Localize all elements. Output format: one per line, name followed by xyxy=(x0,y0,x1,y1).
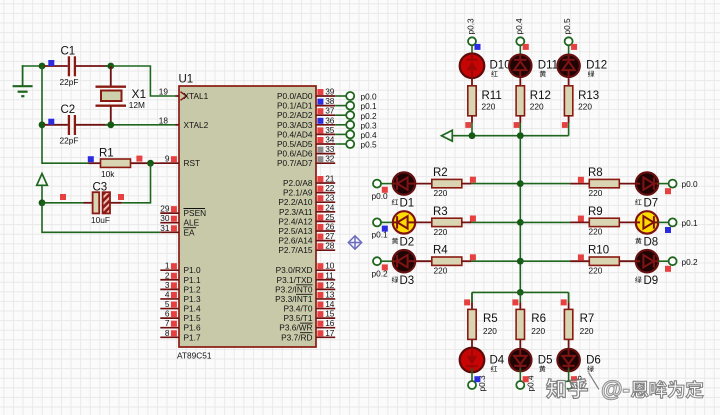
svg-text:D12: D12 xyxy=(586,60,607,72)
svg-text:D4: D4 xyxy=(490,355,505,367)
U1 pin 2 (P1.1) xyxy=(160,270,201,285)
svg-text:2: 2 xyxy=(165,270,170,280)
svg-text:P0.4/AD4: P0.4/AD4 xyxy=(277,129,313,139)
svg-text:13: 13 xyxy=(325,289,335,299)
wire LED D3 to R4 xyxy=(415,260,432,262)
svg-text:28: 28 xyxy=(325,241,335,251)
node bus row p0.2 xyxy=(517,258,524,265)
terminal p0.3 bottom xyxy=(468,375,487,392)
svg-text:PSEN: PSEN xyxy=(184,208,207,218)
svg-text:7: 7 xyxy=(165,318,170,328)
power terminal +5V xyxy=(37,174,48,203)
terminal p0.2 left xyxy=(372,257,389,278)
R7 logic square xyxy=(561,299,567,305)
U1 pin 17 (P3.7/RD) xyxy=(281,328,335,343)
svg-text:D1: D1 xyxy=(400,198,415,210)
svg-text:39: 39 xyxy=(325,87,335,97)
p0.2 left logic square xyxy=(382,264,388,270)
U1 pin 25 (P2.4/A12) xyxy=(278,212,335,227)
svg-text:10uF: 10uF xyxy=(91,215,110,225)
wire R8 to LED D7 xyxy=(619,183,636,185)
svg-text:R1: R1 xyxy=(99,148,114,160)
svg-text:P1.1: P1.1 xyxy=(184,275,201,285)
resistor R5 220 xyxy=(468,309,498,339)
svg-text:R12: R12 xyxy=(530,90,551,102)
U1 pin 11 (P3.1/TXD) xyxy=(277,270,336,285)
resistor R7 220 xyxy=(564,309,594,339)
svg-text:22pF: 22pF xyxy=(60,135,79,145)
U1 pin 19 (XTAL1) xyxy=(159,87,209,102)
svg-text:15: 15 xyxy=(325,309,335,319)
svg-text:P1.5: P1.5 xyxy=(184,313,201,323)
svg-text:16: 16 xyxy=(325,318,335,328)
U1 pin 28 (P2.7/A15) xyxy=(278,241,335,256)
resistor R6 220 xyxy=(516,309,546,339)
svg-text:33: 33 xyxy=(325,144,335,154)
wire C1 to X1 top xyxy=(105,65,111,67)
svg-text:P1.0: P1.0 xyxy=(184,265,201,275)
wire p0.5 terminal to LED D12 xyxy=(568,45,570,58)
U1 pin 3 (P1.2) xyxy=(160,280,201,295)
svg-text:R13: R13 xyxy=(578,90,599,102)
op chip U1 AT89C51 body xyxy=(177,74,316,361)
svg-text:P1.4: P1.4 xyxy=(184,304,201,314)
C2 logic state square (blue) xyxy=(48,119,54,125)
U1 pin 10 (P3.0/RXD) xyxy=(276,261,336,276)
wire R4 to bus xyxy=(462,260,521,262)
U1 pin 5 (P1.4) xyxy=(160,299,201,314)
resistor R13 220 xyxy=(564,86,599,116)
U1 pin 39 (P0.0/AD0) xyxy=(277,87,335,102)
wire bus to R6 xyxy=(519,292,521,309)
wire EA to power junction xyxy=(42,203,160,233)
svg-text:P3.6/WR: P3.6/WR xyxy=(279,323,312,333)
terminal p0.1 right xyxy=(669,218,698,228)
R1 logic squares xyxy=(88,156,143,163)
terminal p0.1 left xyxy=(372,218,389,239)
wire LED D2 to R3 xyxy=(415,221,432,223)
terminal p0.5 top xyxy=(562,18,573,45)
svg-text:D2: D2 xyxy=(400,236,415,248)
R13 logic square xyxy=(562,122,568,128)
wire bus to R10 xyxy=(520,260,589,262)
wire power junction to C3 xyxy=(42,202,93,204)
svg-text:C1: C1 xyxy=(61,46,76,58)
svg-text:17: 17 xyxy=(325,328,335,338)
svg-text:P1.7: P1.7 xyxy=(184,332,201,342)
p0.1 left logic square xyxy=(382,226,388,232)
LED D3 (绿) xyxy=(392,250,415,287)
terminal p0.3 top xyxy=(466,18,477,45)
svg-text:p0.0: p0.0 xyxy=(682,179,699,189)
svg-text:220: 220 xyxy=(482,101,496,111)
U1 XTAL1 clock arrow xyxy=(181,92,187,100)
svg-text:D10: D10 xyxy=(490,60,511,72)
svg-text:R5: R5 xyxy=(483,313,498,325)
svg-text:p0.3: p0.3 xyxy=(466,18,476,35)
node C3 left junction xyxy=(39,199,46,206)
U1 pin 38 (P0.1/AD1) xyxy=(277,96,335,111)
wire p0.1 to LED D2 xyxy=(381,221,393,223)
svg-text:R10: R10 xyxy=(588,245,609,257)
R3 logic square xyxy=(470,216,476,222)
svg-text:p0.3: p0.3 xyxy=(361,120,378,130)
LED D2 (黄) xyxy=(392,211,415,248)
svg-text:P0.7/AD7: P0.7/AD7 xyxy=(277,158,313,168)
svg-text:31: 31 xyxy=(160,223,170,233)
svg-text:P2.1/A9: P2.1/A9 xyxy=(283,188,313,198)
wire P0.3 pin to terminal xyxy=(335,124,346,126)
svg-text:P0.5/AD5: P0.5/AD5 xyxy=(277,139,313,149)
svg-text:P2.0/A8: P2.0/A8 xyxy=(283,178,313,188)
svg-text:P0.2/AD2: P0.2/AD2 xyxy=(277,110,313,120)
R5 logic square xyxy=(464,299,470,305)
U1 pin 37 (P0.2/AD2) xyxy=(277,106,335,121)
svg-text:5: 5 xyxy=(165,299,170,309)
svg-text:24: 24 xyxy=(325,202,335,212)
terminal p0.0 at U1 xyxy=(346,92,377,102)
svg-text:21: 21 xyxy=(325,174,335,184)
resistor R4 220 xyxy=(432,245,462,276)
svg-text:220: 220 xyxy=(531,326,545,336)
wire R2 to bus xyxy=(462,183,521,185)
svg-text:P1.3: P1.3 xyxy=(184,294,201,304)
R8 logic square xyxy=(578,177,584,183)
R11 logic square xyxy=(465,122,471,128)
wire LED D9 to terminal p0.2 right xyxy=(658,260,669,262)
node bottom bus junction xyxy=(517,289,524,296)
C1 logic state square (blue) xyxy=(48,60,54,66)
terminal p0.3 at U1 xyxy=(346,120,377,130)
svg-text:P2.2/A10: P2.2/A10 xyxy=(278,197,313,207)
LED D8 (黄) xyxy=(635,211,658,248)
U1 pin 15 (P3.5/T1) xyxy=(283,309,335,324)
LED D1 (红) xyxy=(392,172,415,209)
svg-text:D3: D3 xyxy=(400,275,415,287)
U1 pin 12 (P3.2/INT0) xyxy=(275,280,335,295)
resistor R11 220 xyxy=(468,86,502,116)
p0.5 bottom logic square xyxy=(571,376,577,382)
svg-text:P2.3/A11: P2.3/A11 xyxy=(279,207,313,217)
wire LED D4 to terminal p0.3 xyxy=(471,368,473,381)
terminal p0.5 bottom xyxy=(565,375,584,392)
node C2 left junction xyxy=(39,121,46,128)
U1 pin 21 (P2.0/A8) xyxy=(283,174,335,189)
svg-text:12: 12 xyxy=(325,280,335,290)
U1 pin 30 (ALE) xyxy=(160,213,199,228)
U1 pin 26 (P2.5/A13) xyxy=(278,222,335,237)
node C1 left junction xyxy=(39,63,46,70)
wire P0.5 pin to terminal xyxy=(335,143,346,145)
svg-text:P0.1/AD1: P0.1/AD1 xyxy=(277,101,313,111)
LED D4 (红) xyxy=(460,348,505,373)
node X1 bottom junction xyxy=(107,121,114,128)
svg-text:R3: R3 xyxy=(433,206,448,218)
terminal p0.4 bottom xyxy=(516,375,535,392)
terminal p0.2 right xyxy=(669,257,698,267)
LED D9 (绿) xyxy=(635,250,658,287)
terminal p0.1 at U1 xyxy=(346,101,377,111)
U1 pin 24 (P2.3/A11) xyxy=(279,202,335,217)
wire P0.1 pin to terminal xyxy=(335,105,346,107)
U1 pin 16 (P3.6/WR) xyxy=(279,318,335,333)
wire R1 to RST pin xyxy=(148,162,179,164)
U1 pin 23 (P2.2/A10) xyxy=(278,193,335,208)
U1 pin 29 (PSEN) xyxy=(160,204,206,219)
svg-text:220: 220 xyxy=(530,101,544,111)
resistor R1 xyxy=(89,148,149,179)
terminal p0.4 at U1 xyxy=(346,130,377,140)
terminal p0.2 at U1 xyxy=(346,111,377,121)
node bus row p0.1 xyxy=(517,219,524,226)
svg-text:P3.3/INT1: P3.3/INT1 xyxy=(275,294,313,304)
svg-text:32: 32 xyxy=(325,154,335,164)
svg-text:R11: R11 xyxy=(482,90,502,102)
wire R10 to LED D9 xyxy=(619,260,636,262)
capacitor C2 xyxy=(45,104,108,145)
wire R3 to bus xyxy=(462,221,521,223)
wire ground to C1 xyxy=(22,65,42,67)
svg-text:38: 38 xyxy=(325,96,335,106)
U1 pin 36 (P0.3/AD3) xyxy=(277,115,335,130)
watermark zhihu xyxy=(546,373,704,403)
svg-text:23: 23 xyxy=(325,193,335,203)
svg-text:10k: 10k xyxy=(101,169,115,179)
R9 logic square xyxy=(578,216,584,222)
R2 logic square xyxy=(470,177,476,183)
wire R11 to top bus xyxy=(471,116,473,136)
svg-text:p0.4: p0.4 xyxy=(514,18,524,35)
wire RST junction down to C3 xyxy=(110,163,150,203)
svg-text:19: 19 xyxy=(159,87,169,97)
U1 pin 33 (P0.6/AD6) xyxy=(277,144,335,159)
svg-text:R2: R2 xyxy=(433,167,448,179)
svg-text:P0.6/AD6: P0.6/AD6 xyxy=(277,149,313,159)
wire LED D6 to terminal p0.5 xyxy=(568,368,570,381)
svg-text:P2.5/A13: P2.5/A13 xyxy=(278,226,313,236)
p0.4 bottom logic square xyxy=(523,376,529,382)
crystal X1 xyxy=(96,66,147,125)
U1 pin 27 (P2.6/A14) xyxy=(278,231,335,246)
terminal p0.5 at U1 xyxy=(346,140,377,150)
node RST junction xyxy=(147,160,154,167)
svg-text:AT89C51: AT89C51 xyxy=(177,351,212,361)
p0.1 right logic square xyxy=(665,227,671,233)
wire LED D10 to resistor R11 xyxy=(471,78,473,86)
svg-text:EA: EA xyxy=(184,227,196,237)
svg-text:p0.1: p0.1 xyxy=(361,101,378,111)
U1 pin 8 (P1.7) xyxy=(160,328,201,343)
U1 pin 14 (P3.4/T0) xyxy=(283,299,335,314)
svg-text:P3.2/INT0: P3.2/INT0 xyxy=(275,284,313,294)
resistor R9 220 xyxy=(588,206,619,237)
U1 pin 13 (P3.3/INT1) xyxy=(275,289,335,304)
svg-text:p0.5: p0.5 xyxy=(361,140,378,150)
p0.0 left logic square xyxy=(382,187,388,193)
svg-text:220: 220 xyxy=(483,326,497,336)
p0.2 right logic square xyxy=(665,266,671,272)
LED D7 (红) xyxy=(635,172,658,209)
U1 pin 22 (P2.1/A9) xyxy=(283,183,335,198)
svg-text:D8: D8 xyxy=(644,236,659,248)
wire C1-junction down to C2 and R1 row xyxy=(42,66,89,163)
LED D5 (黄) xyxy=(509,349,552,372)
wire bus to R7 xyxy=(568,292,570,309)
svg-text:18: 18 xyxy=(159,115,169,125)
wire LED D12 to resistor R13 xyxy=(568,78,570,86)
svg-text:8: 8 xyxy=(165,328,170,338)
svg-text:P2.6/A14: P2.6/A14 xyxy=(278,236,313,246)
U1 pin 31 (EA) xyxy=(160,223,196,238)
svg-text:36: 36 xyxy=(325,115,335,125)
wire C2 to XTAL2 pin xyxy=(105,124,177,126)
resistor R2 220 xyxy=(432,167,462,198)
svg-text:220: 220 xyxy=(578,101,592,111)
svg-text:3: 3 xyxy=(165,280,170,290)
svg-text:P3.4/T0: P3.4/T0 xyxy=(283,304,312,314)
svg-text:6: 6 xyxy=(165,309,170,319)
resistor R12 220 xyxy=(516,86,551,116)
svg-text:P2.4/A12: P2.4/A12 xyxy=(278,216,313,226)
wire R7 to LED D6 xyxy=(568,340,570,348)
svg-text:D5: D5 xyxy=(538,355,553,367)
resistor R8 220 xyxy=(588,167,619,198)
svg-text:X1: X1 xyxy=(132,87,147,101)
R10 logic square xyxy=(578,254,584,260)
svg-text:29: 29 xyxy=(160,204,170,214)
wire LED D7 to terminal p0.0 right xyxy=(658,183,669,185)
svg-text:30: 30 xyxy=(160,213,170,223)
wire bottom bus xyxy=(472,292,569,302)
R6 logic square xyxy=(512,299,518,305)
svg-text:XTAL1: XTAL1 xyxy=(184,91,209,101)
wire R12 to top bus xyxy=(519,116,521,136)
svg-text:p0.1: p0.1 xyxy=(682,218,699,228)
svg-text:D7: D7 xyxy=(644,198,659,210)
svg-text:P3.5/T1: P3.5/T1 xyxy=(283,313,312,323)
p0.0 right logic square xyxy=(665,188,671,194)
U1 pin 1 (P1.0) xyxy=(160,261,201,276)
wire p0.0 to LED D1 xyxy=(381,183,393,185)
terminal p0.0 left xyxy=(372,180,389,201)
svg-text:RST: RST xyxy=(184,158,201,168)
svg-text:P3.7/RD: P3.7/RD xyxy=(281,332,312,342)
wire P0.2 pin to terminal xyxy=(335,114,346,116)
R4 logic square xyxy=(470,254,476,260)
svg-text:R8: R8 xyxy=(588,167,603,179)
svg-text:P2.7/A15: P2.7/A15 xyxy=(278,245,313,255)
svg-text:R6: R6 xyxy=(531,313,546,325)
svg-text:22: 22 xyxy=(325,183,335,193)
U1 pin 9 (RST) xyxy=(160,154,200,169)
U1 pin 6 (P1.5) xyxy=(160,309,201,324)
svg-text:p0.2: p0.2 xyxy=(361,111,378,121)
svg-text:14: 14 xyxy=(325,299,335,309)
svg-text:27: 27 xyxy=(325,231,335,241)
wire p0.4 terminal to LED D11 xyxy=(519,45,521,58)
U1 pin 18 (XTAL2) xyxy=(159,115,209,130)
wire center bus xyxy=(519,136,521,293)
C3 logic squares xyxy=(60,194,124,200)
svg-text:P0.0/AD0: P0.0/AD0 xyxy=(277,91,313,101)
svg-text:p0.5: p0.5 xyxy=(562,18,572,35)
svg-text:C2: C2 xyxy=(61,104,76,116)
svg-text:P1.6: P1.6 xyxy=(184,323,201,333)
wire R9 to LED D8 xyxy=(619,221,636,223)
U1 pin 34 (P0.5/AD5) xyxy=(277,135,335,150)
svg-text:P3.1/TXD: P3.1/TXD xyxy=(277,275,313,285)
svg-text:XTAL2: XTAL2 xyxy=(184,120,209,130)
svg-text:p0.0: p0.0 xyxy=(361,92,378,102)
svg-text:R7: R7 xyxy=(580,313,595,325)
svg-text:4: 4 xyxy=(165,289,170,299)
R12 logic square xyxy=(514,122,520,128)
svg-text:220: 220 xyxy=(589,188,603,198)
svg-text:1: 1 xyxy=(165,261,170,271)
svg-text:35: 35 xyxy=(325,125,335,135)
svg-text:D6: D6 xyxy=(586,355,601,367)
capacitor C3 (polarized) xyxy=(91,182,110,225)
wire bus to R9 xyxy=(520,221,589,223)
wire X1 top to XTAL1 pin xyxy=(111,66,176,96)
p0.3 logic square xyxy=(475,44,481,50)
U1 pin 32 (P0.7/AD7) xyxy=(277,154,335,169)
svg-text:P1.2: P1.2 xyxy=(184,284,201,294)
svg-text:9: 9 xyxy=(165,154,170,164)
wire R13 to top bus xyxy=(568,116,570,136)
wire LED D5 to terminal p0.4 xyxy=(519,368,521,381)
svg-text:P0.3/AD3: P0.3/AD3 xyxy=(277,120,313,130)
terminal p0.4 top xyxy=(514,18,525,45)
wire LED D11 to resistor R12 xyxy=(519,78,521,86)
svg-text:22pF: 22pF xyxy=(60,77,79,87)
wire p0.2 to LED D3 xyxy=(381,260,393,262)
svg-text:D11: D11 xyxy=(538,60,558,72)
svg-text:D9: D9 xyxy=(644,275,659,287)
svg-text:220: 220 xyxy=(434,188,448,198)
svg-text:220: 220 xyxy=(580,326,594,336)
svg-text:10: 10 xyxy=(325,261,335,271)
svg-text:220: 220 xyxy=(589,227,603,237)
svg-text:ALE: ALE xyxy=(184,218,200,228)
wire LED D8 to terminal p0.1 right xyxy=(658,221,669,223)
LED D10 (红) xyxy=(460,54,511,79)
svg-text:11: 11 xyxy=(325,270,334,280)
node X1 top junction xyxy=(107,63,114,70)
wire P0.0 pin to terminal xyxy=(335,95,346,97)
U1 pin 35 (P0.4/AD4) xyxy=(277,125,335,140)
LED D6 (绿) xyxy=(557,349,600,372)
wire LED D1 to R2 xyxy=(415,183,432,185)
svg-text:C3: C3 xyxy=(93,182,108,194)
node bus row p0.0 xyxy=(517,180,524,187)
svg-text:220: 220 xyxy=(434,266,448,276)
capacitor C1 xyxy=(45,46,108,87)
node top bus junction B xyxy=(517,132,524,139)
p0.4 logic square xyxy=(523,44,529,50)
svg-text:R9: R9 xyxy=(588,206,603,218)
LED D11 (黄) xyxy=(509,55,558,77)
svg-text:p0.4: p0.4 xyxy=(361,130,378,140)
svg-text:P3.0/RXD: P3.0/RXD xyxy=(276,265,313,275)
U1 pin 7 (P1.6) xyxy=(160,318,201,333)
svg-text:@-: @- xyxy=(601,377,630,402)
resistor R3 220 xyxy=(432,206,462,237)
wire bus to R5 xyxy=(471,292,473,309)
wire R6 to LED D5 xyxy=(519,340,521,348)
LED D12 (绿) xyxy=(557,55,607,77)
cursor origin marker xyxy=(348,236,361,249)
